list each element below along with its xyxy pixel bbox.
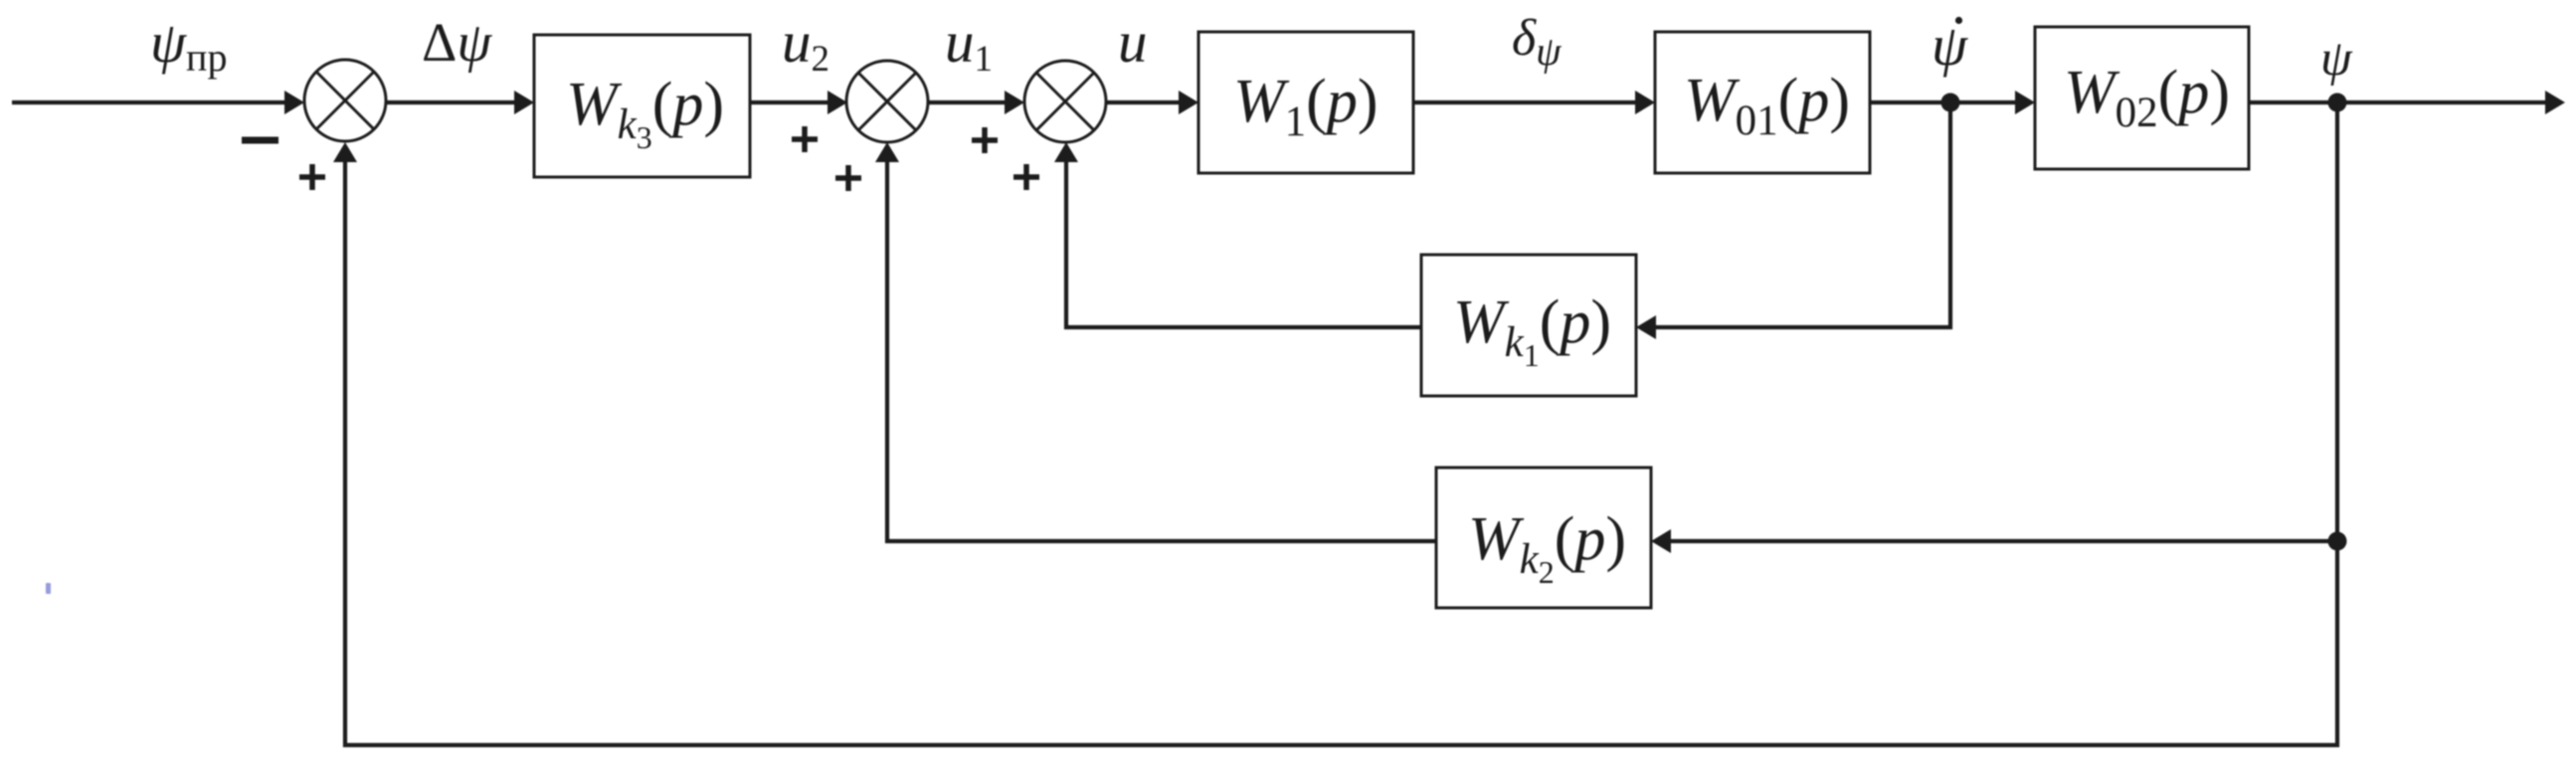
summing junction circle2 bbox=[846, 61, 928, 142]
node dot junction on psi feedback bbox=[2328, 532, 2347, 551]
arrowhead into circle3 bbox=[1005, 91, 1024, 114]
wire W02 to output bbox=[2249, 100, 2548, 104]
summing junction circle3 bbox=[1024, 61, 1106, 142]
arrowhead output bbox=[2545, 91, 2565, 114]
wire Wk1 to circle3 bottom bbox=[1066, 160, 1421, 327]
arrowhead up into circle1 bottom bbox=[333, 142, 357, 162]
arrowhead into W01 bbox=[1635, 91, 1655, 114]
svg-text:Wk3(p): Wk3(p) bbox=[566, 71, 724, 155]
arrowhead into Wk1 right side bbox=[1636, 315, 1656, 339]
svg-text:W02(p): W02(p) bbox=[2064, 59, 2230, 136]
block Wk2 bbox=[1436, 468, 1651, 608]
wire Wk2 to circle2 bottom bbox=[887, 160, 1436, 541]
wire junction to Wk2 bbox=[1668, 539, 2337, 543]
svg-text:Wk2(p): Wk2(p) bbox=[1468, 505, 1626, 590]
wire input psi_pr bbox=[12, 100, 288, 104]
minus sign at circle1 bbox=[242, 137, 278, 144]
plus sign left of circle3 bbox=[972, 127, 998, 153]
arrowhead into Wk3 bbox=[514, 91, 534, 114]
block W1 bbox=[1198, 32, 1413, 173]
svg-text:u2: u2 bbox=[782, 9, 829, 80]
wire circle2 to circle3 bbox=[928, 100, 1007, 104]
block W01 bbox=[1655, 32, 1870, 173]
wire feedback psi node down to bottom bbox=[345, 102, 2337, 745]
wire Wk3 to circle2 bbox=[750, 100, 830, 104]
svg-text:W1(p): W1(p) bbox=[1233, 68, 1378, 145]
wire W01 to W02 through node psi-dot bbox=[1870, 100, 2018, 104]
node dot psi-dot bbox=[1941, 94, 1960, 112]
block Wk1 bbox=[1421, 255, 1636, 396]
svg-text:Δψ: Δψ bbox=[422, 12, 492, 74]
plus sign left of circle2 bbox=[792, 126, 818, 152]
blue artifact mark bbox=[46, 583, 51, 594]
summing junction circle1 bbox=[304, 60, 386, 141]
svg-text:ψ: ψ bbox=[2320, 31, 2353, 87]
block W02 bbox=[2035, 27, 2249, 169]
wire circle3 to W1 bbox=[1106, 100, 1182, 104]
wire feedback psi-dot down and left to Wk1 bbox=[1653, 102, 1950, 327]
node dot psi bbox=[2328, 94, 2347, 112]
arrowhead into circle2 bbox=[828, 91, 847, 114]
wire circle1 to Wk3 bbox=[386, 100, 517, 104]
svg-text:ψ: ψ bbox=[1932, 13, 1968, 78]
arrowhead into W1 bbox=[1179, 91, 1198, 114]
arrowhead into W02 bbox=[2015, 91, 2035, 114]
plus sign below-left of circle3 bbox=[1013, 164, 1039, 190]
arrowhead up into circle2 bottom bbox=[875, 142, 899, 162]
svg-text:ψпр: ψпр bbox=[150, 10, 227, 80]
arrowhead into circle1 bbox=[284, 91, 304, 114]
svg-text:u1: u1 bbox=[945, 9, 993, 80]
block Wk3 bbox=[534, 35, 750, 177]
plus sign below circle1 bbox=[299, 164, 325, 190]
plus sign below-left of circle2 bbox=[835, 165, 861, 191]
svg-text:Wk1(p): Wk1(p) bbox=[1453, 288, 1611, 373]
svg-text:W01(p): W01(p) bbox=[1684, 67, 1850, 144]
svg-text:δψ: δψ bbox=[1512, 10, 1563, 74]
wire W1 to W01, label delta_psi bbox=[1413, 100, 1638, 104]
arrowhead up into circle3 bottom bbox=[1054, 142, 1078, 162]
svg-text:u: u bbox=[1118, 9, 1148, 75]
arrowhead into Wk2 right side bbox=[1651, 529, 1671, 553]
